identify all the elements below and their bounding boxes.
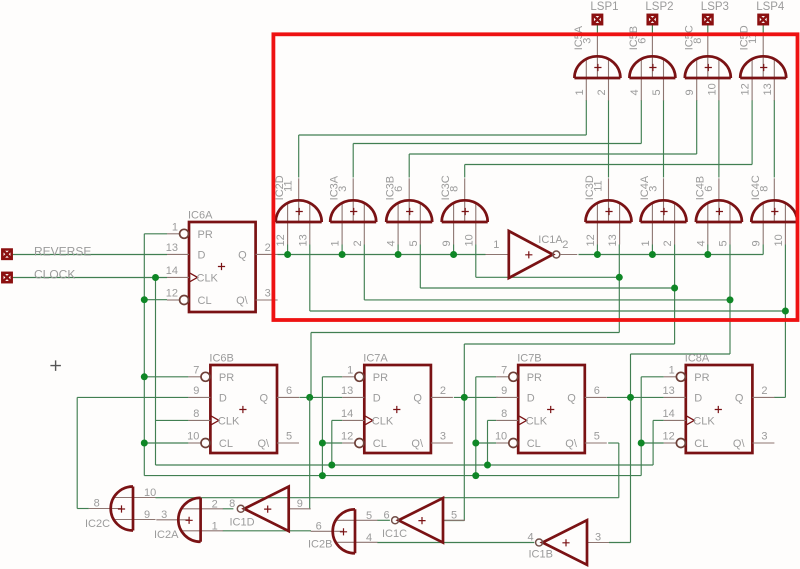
svg-text:14: 14 xyxy=(341,408,353,420)
gate IC3A xyxy=(329,175,377,246)
nets right middle gate outputs up to top gate right inputs xyxy=(609,100,775,178)
svg-text:4: 4 xyxy=(695,240,707,246)
flip-flop IC8A xyxy=(663,353,775,454)
svg-text:CL: CL xyxy=(219,438,233,450)
svg-text:10: 10 xyxy=(706,83,718,95)
net CLOCK wire and vertical B distribution xyxy=(13,274,664,469)
svg-text:PR: PR xyxy=(373,372,388,384)
svg-text:D: D xyxy=(373,392,381,404)
svg-text:CLK: CLK xyxy=(372,415,394,427)
gate IC4B xyxy=(694,176,742,247)
net IC2C.8 output up to IC6B.D xyxy=(77,397,188,508)
svg-text:Q: Q xyxy=(260,392,269,404)
svg-text:12: 12 xyxy=(341,431,353,443)
svg-text:5: 5 xyxy=(408,240,420,246)
gate IC2D xyxy=(274,175,322,246)
flip-flop IC7B xyxy=(495,353,607,454)
gate IC5A xyxy=(573,25,621,100)
svg-text:3: 3 xyxy=(595,532,601,544)
svg-text:4: 4 xyxy=(527,532,533,544)
svg-text:14: 14 xyxy=(663,408,675,420)
gate IC2C xyxy=(85,487,156,531)
svg-text:8: 8 xyxy=(758,186,770,192)
svg-text:IC2B: IC2B xyxy=(308,539,332,551)
svg-text:IC1A: IC1A xyxy=(538,234,563,246)
gate IC3C xyxy=(440,175,488,246)
svg-text:10: 10 xyxy=(463,234,475,246)
svg-text:PR: PR xyxy=(219,372,234,384)
svg-text:IC6A: IC6A xyxy=(188,210,213,222)
svg-text:9: 9 xyxy=(684,89,696,95)
svg-text:6: 6 xyxy=(594,385,600,397)
svg-text:13: 13 xyxy=(663,385,675,397)
net IC7B Q-bar to IC2C.10 xyxy=(156,443,619,498)
inverter IC1B xyxy=(527,520,609,565)
svg-text:PR: PR xyxy=(527,372,542,384)
svg-text:3: 3 xyxy=(761,431,767,443)
svg-text:2: 2 xyxy=(562,239,568,251)
svg-text:Q\: Q\ xyxy=(411,438,424,450)
svg-text:3: 3 xyxy=(648,186,660,192)
svg-text:12: 12 xyxy=(275,234,287,246)
bottom gate chain wires xyxy=(223,509,535,543)
svg-text:2: 2 xyxy=(662,240,674,246)
svg-text:IC2A: IC2A xyxy=(154,529,179,541)
svg-text:9: 9 xyxy=(144,509,150,521)
nets top gate outputs to LSP pads xyxy=(597,25,763,36)
svg-text:4: 4 xyxy=(386,240,398,246)
pad REVERSE xyxy=(2,245,91,259)
svg-text:9: 9 xyxy=(193,385,199,397)
svg-text:10: 10 xyxy=(773,234,785,246)
svg-text:LSP4: LSP4 xyxy=(756,1,785,13)
svg-text:7: 7 xyxy=(193,364,199,376)
svg-text:10: 10 xyxy=(187,431,199,443)
gate IC3D xyxy=(584,175,632,246)
svg-text:IC2C: IC2C xyxy=(85,518,110,530)
svg-text:Q\: Q\ xyxy=(565,438,578,450)
svg-text:2: 2 xyxy=(440,385,446,397)
svg-text:3: 3 xyxy=(161,509,167,521)
svg-text:8: 8 xyxy=(193,408,199,420)
net Q-bus from IC6A Q through IC1A input xyxy=(278,245,486,259)
svg-text:5: 5 xyxy=(451,509,457,521)
svg-text:11: 11 xyxy=(593,180,605,191)
gate IC4A xyxy=(639,175,687,246)
svg-text:8: 8 xyxy=(94,498,100,510)
inverter IC1D xyxy=(229,487,311,532)
svg-text:CL: CL xyxy=(527,438,541,450)
svg-text:3: 3 xyxy=(265,288,271,300)
svg-text:2: 2 xyxy=(212,498,218,510)
svg-text:PR: PR xyxy=(694,372,709,384)
pad LSP2 xyxy=(645,1,673,24)
pad CLOCK xyxy=(2,268,75,283)
svg-text:10: 10 xyxy=(144,487,156,499)
svg-text:Q: Q xyxy=(735,392,744,404)
inverter IC1C xyxy=(382,498,465,543)
svg-text:1: 1 xyxy=(330,240,342,246)
svg-text:8: 8 xyxy=(692,38,704,44)
svg-text:Q: Q xyxy=(413,392,422,404)
red highlight rectangle xyxy=(273,34,797,320)
svg-text:8: 8 xyxy=(229,498,235,510)
svg-text:D: D xyxy=(198,249,206,261)
svg-text:D: D xyxy=(219,392,227,404)
net REVERSE wire xyxy=(13,254,168,256)
svg-text:14: 14 xyxy=(166,265,178,277)
gate IC4C xyxy=(750,175,798,246)
svg-text:Q\: Q\ xyxy=(258,438,271,450)
svg-text:CL: CL xyxy=(694,438,708,450)
pad LSP3 xyxy=(701,1,729,24)
svg-text:10: 10 xyxy=(495,431,507,443)
svg-text:5: 5 xyxy=(594,431,600,443)
svg-text:9: 9 xyxy=(501,385,507,397)
svg-text:CLK: CLK xyxy=(197,272,219,284)
origin cross xyxy=(50,360,61,371)
gate IC5D xyxy=(739,25,787,100)
nets left middle gate outputs up to top gate left inputs xyxy=(299,100,752,178)
svg-text:2: 2 xyxy=(352,240,364,246)
pad LSP4 xyxy=(756,1,785,24)
gate IC2B xyxy=(308,509,378,553)
svg-text:3: 3 xyxy=(337,186,349,192)
svg-text:IC7A: IC7A xyxy=(363,353,388,365)
net PRESET/CLEAR master (vertical A + master line) xyxy=(141,234,664,479)
svg-text:1: 1 xyxy=(640,240,652,246)
svg-text:LSP2: LSP2 xyxy=(645,1,673,13)
svg-text:CLK: CLK xyxy=(526,415,548,427)
svg-text:11: 11 xyxy=(283,180,295,191)
net R3: IC2D.13 + IC4C.10 + IC8A.Q xyxy=(310,245,789,398)
svg-text:3: 3 xyxy=(440,431,446,443)
svg-text:8: 8 xyxy=(501,408,507,420)
svg-text:1: 1 xyxy=(574,89,586,95)
svg-text:6: 6 xyxy=(703,186,715,192)
svg-text:13: 13 xyxy=(607,234,619,246)
svg-text:4: 4 xyxy=(366,532,372,544)
gate IC2A xyxy=(154,498,223,542)
svg-text:1: 1 xyxy=(493,239,499,251)
svg-text:PR: PR xyxy=(198,229,213,241)
pad LSP1 xyxy=(590,1,618,24)
svg-text:1: 1 xyxy=(669,364,675,376)
svg-text:1: 1 xyxy=(212,520,218,532)
svg-text:12: 12 xyxy=(663,431,675,443)
svg-text:CLK: CLK xyxy=(693,415,715,427)
svg-text:D: D xyxy=(527,392,535,404)
net R2: IC3A.2 + IC4B.5 + IC7B.Q + IC8A.D + IC1B input xyxy=(364,245,733,543)
svg-text:CL: CL xyxy=(198,295,212,307)
svg-text:Q: Q xyxy=(567,392,576,404)
svg-text:12: 12 xyxy=(166,288,178,300)
svg-text:4: 4 xyxy=(629,89,641,95)
svg-text:12: 12 xyxy=(585,234,597,246)
svg-text:Q\: Q\ xyxy=(236,295,249,307)
svg-text:2: 2 xyxy=(265,242,271,254)
net R1: IC3C.10 + IC3D.13 + IC6B.Q + IC7A.D + IC1D input xyxy=(299,245,622,510)
svg-text:2: 2 xyxy=(761,385,767,397)
gate IC3B xyxy=(385,176,433,247)
svg-text:LSP1: LSP1 xyxy=(590,1,618,13)
svg-text:Q: Q xyxy=(238,249,247,261)
svg-text:CLK: CLK xyxy=(218,415,240,427)
svg-text:2: 2 xyxy=(596,89,608,95)
svg-text:Q\: Q\ xyxy=(733,438,746,450)
svg-text:6: 6 xyxy=(383,509,389,521)
inverter IC1A xyxy=(486,231,578,278)
svg-text:9: 9 xyxy=(297,498,303,510)
svg-text:9: 9 xyxy=(441,240,453,246)
svg-text:IC6B: IC6B xyxy=(209,353,233,365)
svg-text:5: 5 xyxy=(718,240,730,246)
net IC1A output bus to right gates xyxy=(579,245,764,259)
svg-text:12: 12 xyxy=(740,83,752,95)
svg-text:IC7B: IC7B xyxy=(517,353,541,365)
net R4: IC3B.5 + IC4A.2 + IC7A.Q + IC7B.D + IC2C.10 + IC1C input xyxy=(420,245,678,521)
svg-text:REVERSE: REVERSE xyxy=(34,245,91,259)
svg-text:13: 13 xyxy=(297,234,309,246)
flip-flop IC7A xyxy=(341,353,453,454)
svg-text:13: 13 xyxy=(762,83,774,95)
gate IC5C xyxy=(683,25,731,100)
svg-text:13: 13 xyxy=(166,242,178,254)
svg-text:1: 1 xyxy=(172,221,178,233)
svg-text:8: 8 xyxy=(449,186,461,192)
svg-text:5: 5 xyxy=(366,510,372,522)
svg-text:6: 6 xyxy=(286,385,292,397)
svg-text:13: 13 xyxy=(341,385,353,397)
svg-text:IC1D: IC1D xyxy=(230,517,255,529)
flip-flop IC6B xyxy=(187,353,299,454)
svg-text:5: 5 xyxy=(286,431,292,443)
svg-text:9: 9 xyxy=(751,240,763,246)
svg-text:6: 6 xyxy=(316,520,322,532)
svg-text:D: D xyxy=(694,392,702,404)
svg-text:6: 6 xyxy=(636,38,648,44)
gate IC5B xyxy=(628,26,676,101)
svg-text:IC1B: IC1B xyxy=(529,549,553,561)
svg-text:7: 7 xyxy=(501,364,507,376)
svg-text:IC8A: IC8A xyxy=(685,353,710,365)
svg-text:CLOCK: CLOCK xyxy=(34,268,75,282)
svg-text:1: 1 xyxy=(347,364,353,376)
svg-text:6: 6 xyxy=(393,186,405,192)
svg-text:3: 3 xyxy=(581,38,593,44)
flip-flop IC6A xyxy=(166,210,278,313)
svg-text:CL: CL xyxy=(373,438,387,450)
svg-text:LSP3: LSP3 xyxy=(701,1,729,13)
svg-text:5: 5 xyxy=(651,89,663,95)
svg-text:IC1C: IC1C xyxy=(382,528,407,540)
